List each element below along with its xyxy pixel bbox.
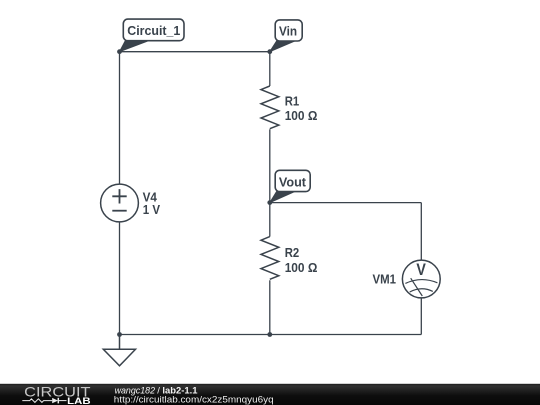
node R2 bottom junction xyxy=(267,332,272,337)
svg-text:VM1: VM1 xyxy=(373,272,397,287)
wire voltmeter top lead xyxy=(420,203,422,261)
wire Vin node to R1 top lead xyxy=(269,52,271,86)
svg-text:R2: R2 xyxy=(285,245,300,260)
label VM1 V glyph xyxy=(416,261,426,279)
net label Vin xyxy=(270,20,302,52)
wire R2 bottom lead to bottom rail xyxy=(269,280,271,334)
footer bar xyxy=(0,384,540,405)
svg-text:1 V: 1 V xyxy=(143,202,161,217)
footer url line xyxy=(114,394,274,405)
node Vout junction xyxy=(267,200,272,205)
svg-text:100 Ω: 100 Ω xyxy=(285,260,318,275)
svg-text:Circuit_1: Circuit_1 xyxy=(127,23,180,38)
svg-text:Vout: Vout xyxy=(279,174,307,189)
logo resistor-diode glyph xyxy=(22,398,66,404)
svg-text:http://circuitlab.com/cx2z5mnq: http://circuitlab.com/cx2z5mnqyu6yq xyxy=(114,394,274,405)
logo CIRCUIT text xyxy=(24,384,91,400)
svg-text:V: V xyxy=(416,261,426,279)
resistor R2 xyxy=(261,237,279,280)
wire left rail bottom (V4 to ground node) xyxy=(119,222,121,335)
voltage source V4 xyxy=(101,184,139,222)
wire top horizontal Circuit_1 to Vin xyxy=(120,51,270,53)
svg-text:R1: R1 xyxy=(285,93,300,108)
ground xyxy=(103,335,135,366)
logo LAB text xyxy=(67,396,91,405)
svg-text:Vin: Vin xyxy=(279,23,297,38)
label VM1 xyxy=(373,272,397,287)
voltmeter VM1 xyxy=(402,260,440,298)
net label Circuit_1 xyxy=(120,19,185,52)
svg-text:LAB: LAB xyxy=(67,396,91,405)
label R2 value xyxy=(285,245,318,275)
resistor R1 xyxy=(261,86,279,129)
wire voltmeter bottom lead xyxy=(420,298,422,335)
wire R1 bottom lead to Vout node xyxy=(269,129,271,202)
net label Vout xyxy=(270,170,310,202)
label V4 value xyxy=(143,190,161,217)
wire left rail top (node to V4) xyxy=(119,52,121,184)
wire bottom horizontal rail xyxy=(120,334,422,336)
node Vin junction xyxy=(267,49,272,54)
footer title line xyxy=(115,385,199,396)
svg-text:100 Ω: 100 Ω xyxy=(285,108,318,123)
wire Vout node to R2 top lead xyxy=(269,203,271,237)
node ground junction xyxy=(117,332,122,337)
wire Vout horizontal to voltmeter branch xyxy=(270,202,422,204)
label R1 value xyxy=(285,93,318,123)
node Circuit_1 junction xyxy=(117,49,122,54)
